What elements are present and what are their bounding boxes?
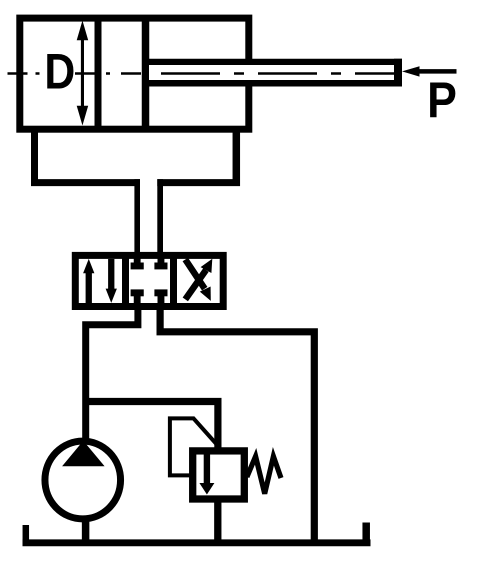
wire: pump outlet branch to relief valve <box>86 402 218 451</box>
wire: valve port B up to manifold <box>157 179 163 255</box>
relief valve RV1 body <box>193 451 245 499</box>
relief valve RV1 pilot line <box>170 418 220 475</box>
tank line left tick <box>23 525 30 546</box>
valve position 2 blocked port bottom-left <box>131 289 144 307</box>
valve position 1 down arrow <box>106 259 117 303</box>
valve position 1 up arrow <box>83 259 94 303</box>
relief valve RV1 spring <box>247 456 281 493</box>
cylinder port manifold funnel <box>31 126 240 186</box>
centerline axis (dash-dot) <box>8 72 395 74</box>
valve V1 outer box <box>75 255 223 306</box>
tank line right tick <box>362 523 370 547</box>
tank line <box>23 539 371 546</box>
cylinder C1 barrel <box>20 18 249 129</box>
relief valve RV1 flow arrow <box>199 454 214 495</box>
wire: valve port A up to manifold <box>134 179 140 255</box>
bore diameter dimension arrow <box>77 21 89 126</box>
wire: valve port T to tank <box>160 307 314 547</box>
svg-text:P: P <box>427 73 457 129</box>
wire: pump suction to tank <box>82 519 90 546</box>
valve V1 divider left <box>122 255 129 306</box>
wire: valve port P to pump riser <box>86 307 138 442</box>
pump P1 circle <box>45 441 121 519</box>
valve position 3 crossed arrow up-right <box>185 259 212 300</box>
valve position 3 crossed arrow down-right <box>185 260 211 301</box>
wire: relief valve outlet to tank <box>214 499 221 546</box>
pump P1 flow triangle <box>62 441 105 467</box>
cylinder C1 piston left face <box>95 18 102 129</box>
valve V1 divider right <box>170 255 177 306</box>
valve position 2 blocked port top-left <box>131 255 144 269</box>
valve position 2 blocked port top-right <box>154 255 167 269</box>
force arrow into rod <box>402 66 457 76</box>
piston rod <box>149 59 402 87</box>
valve position 2 blocked port bottom-right <box>154 289 167 307</box>
cylinder C1 piston right face <box>142 18 150 129</box>
svg-text:D: D <box>44 43 75 99</box>
